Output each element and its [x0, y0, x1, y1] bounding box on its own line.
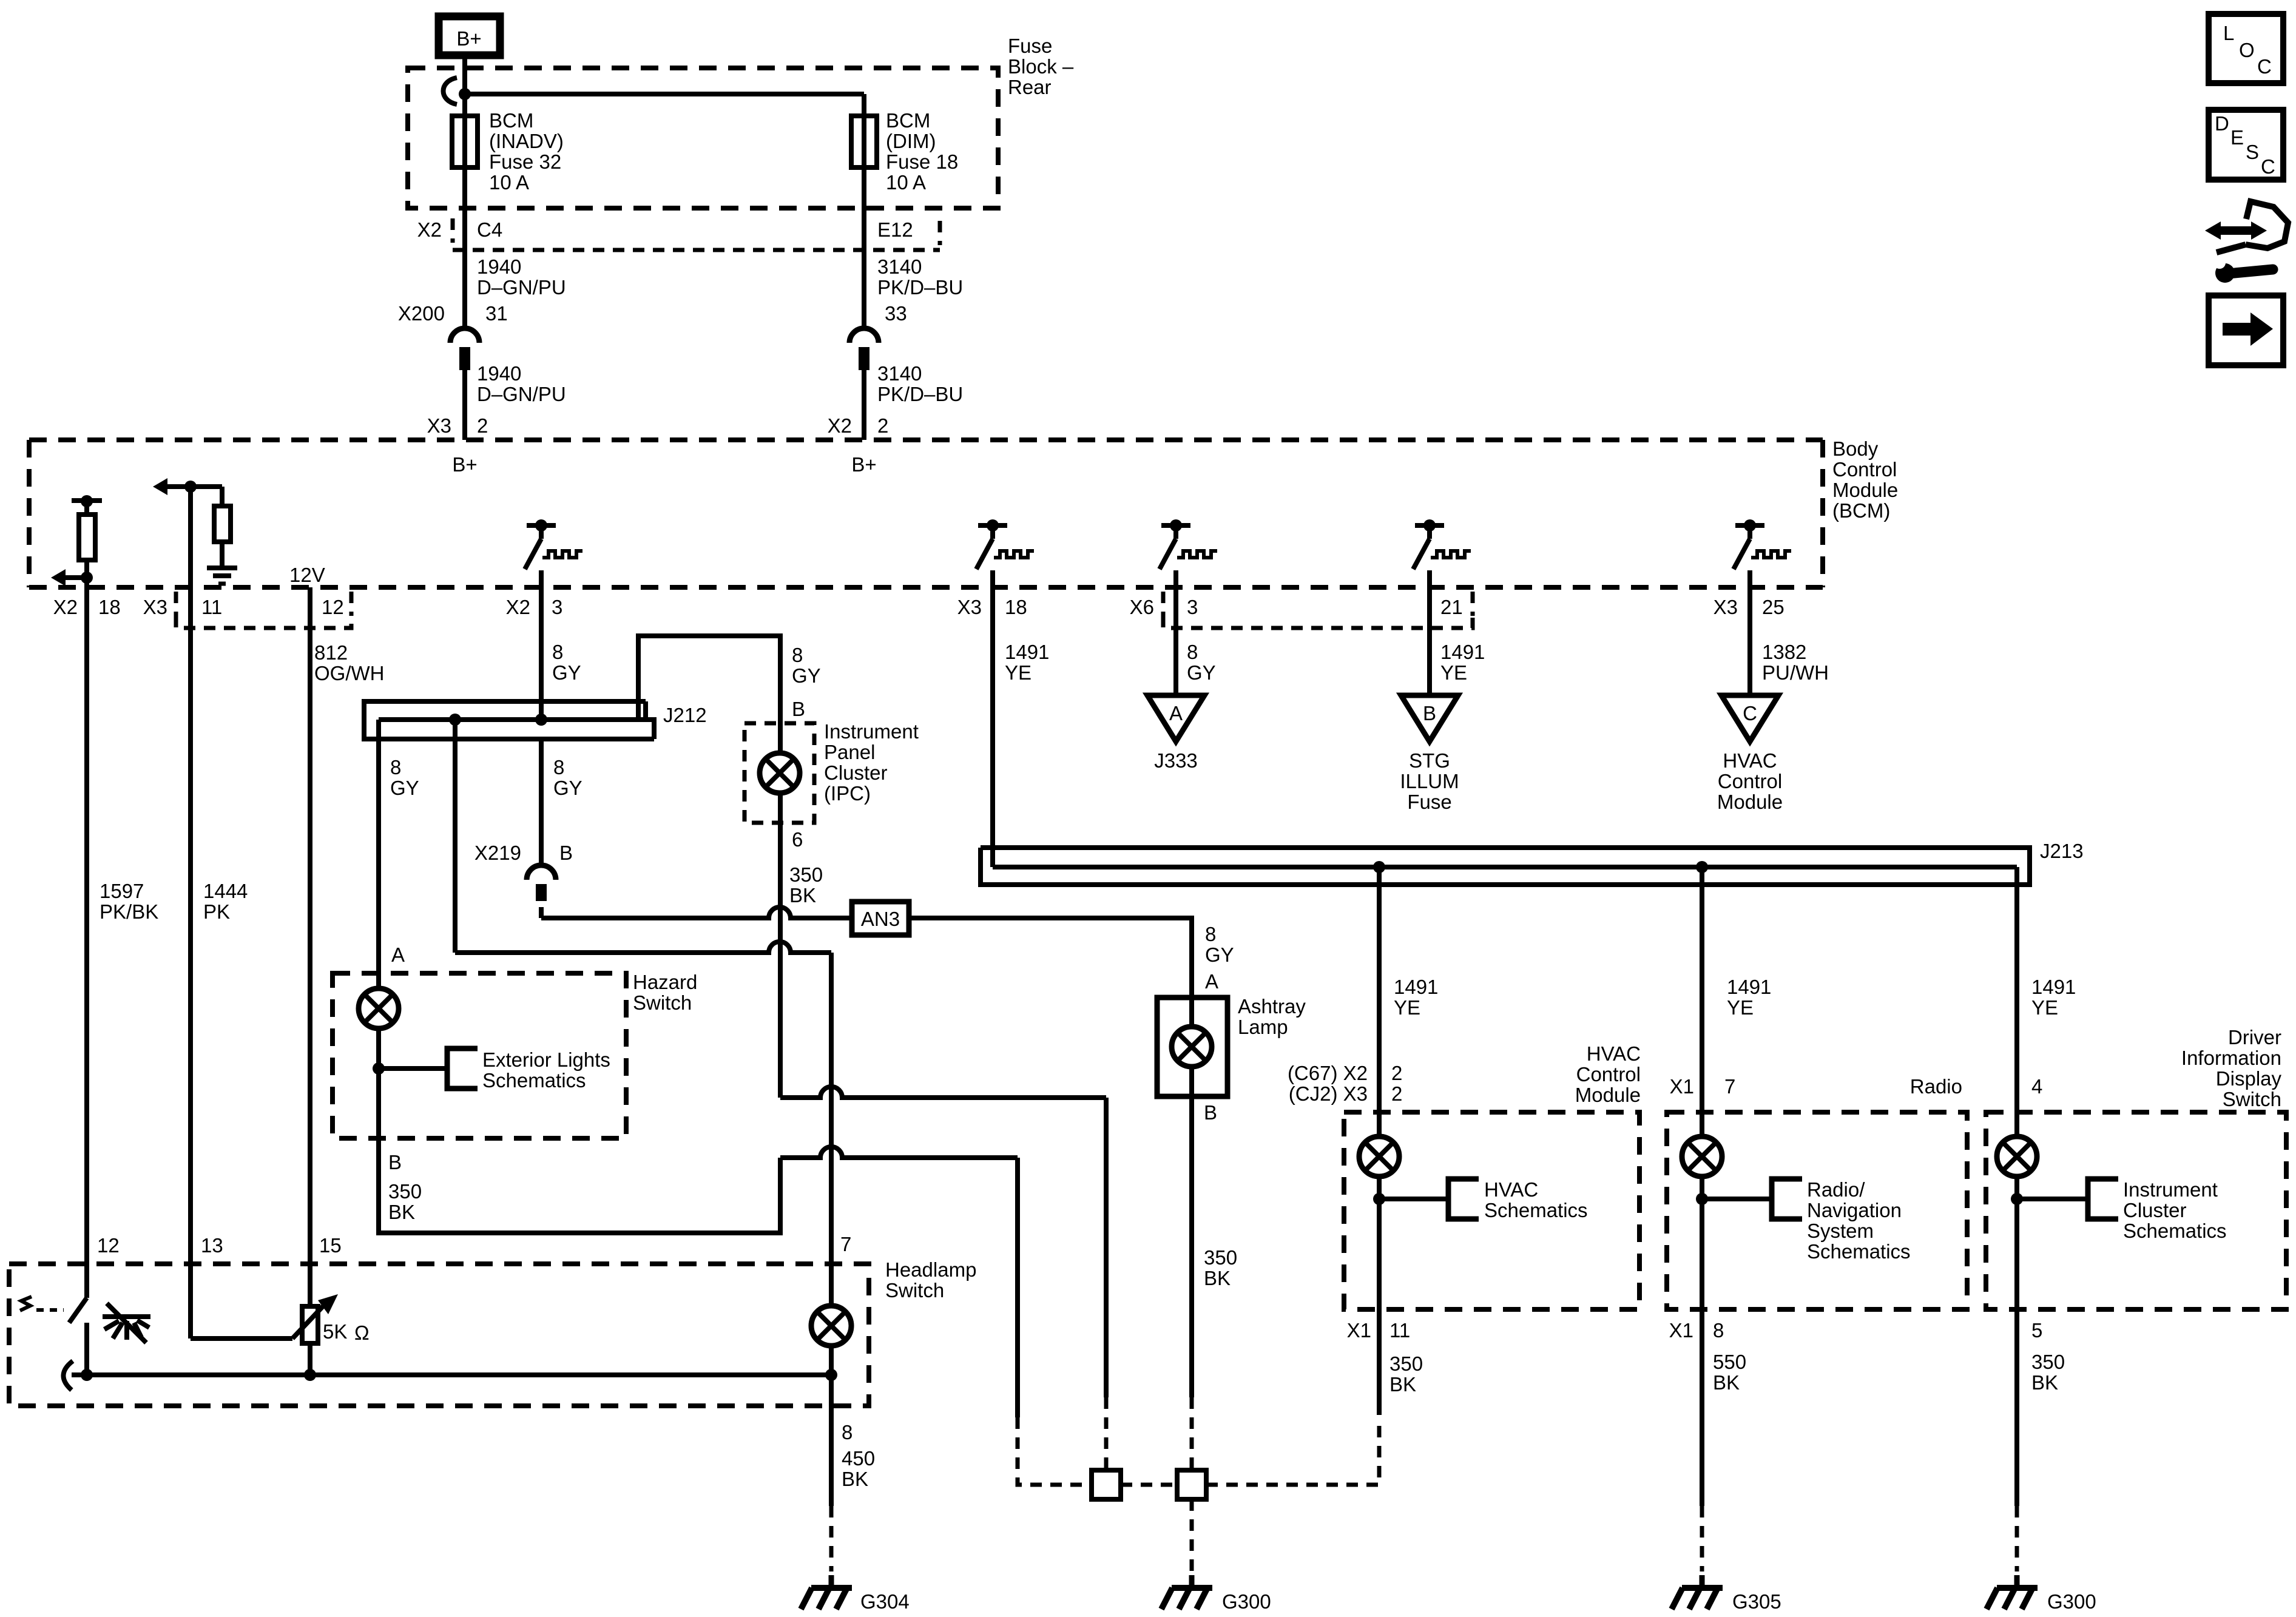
DID switch dashed box	[1986, 1112, 2286, 1309]
lamp DID switch illumination	[1997, 1136, 2037, 1176]
svg-text:Rear: Rear	[1008, 76, 1052, 98]
wire 1491 YE from X3-18	[990, 587, 995, 867]
wire 8 GY from X6-3	[1173, 587, 1178, 695]
svg-text:Instrument: Instrument	[2123, 1178, 2218, 1201]
fuse block dashed box	[408, 68, 998, 208]
svg-text:812: 812	[314, 641, 348, 664]
svg-text:Exterior Lights: Exterior Lights	[482, 1048, 610, 1071]
icon DESC	[2209, 110, 2283, 180]
svg-text:X3: X3	[957, 596, 982, 618]
fuse element curve	[444, 78, 458, 104]
svg-text:Ashtray: Ashtray	[1238, 995, 1306, 1018]
svg-text:YE: YE	[1440, 661, 1467, 684]
ground G300 right	[1987, 1575, 2038, 1609]
svg-text:BK: BK	[1713, 1371, 1740, 1394]
svg-text:Switch: Switch	[633, 991, 692, 1014]
svg-text:Fuse 18: Fuse 18	[886, 150, 958, 173]
Instrument Panel Cluster dashed box	[745, 723, 814, 823]
wire headlamp feed 8 GY	[453, 720, 458, 953]
fuse F32 BCM (INADV)	[452, 116, 478, 167]
svg-text:J213: J213	[2040, 840, 2084, 862]
svg-text:Schematics: Schematics	[482, 1069, 586, 1092]
svg-text:HVAC: HVAC	[1587, 1042, 1641, 1065]
svg-text:5K: 5K	[323, 1320, 347, 1343]
svg-text:Schematics: Schematics	[1484, 1199, 1588, 1221]
svg-text:Navigation: Navigation	[1807, 1199, 1902, 1221]
svg-text:8: 8	[1713, 1319, 1724, 1342]
wire headlamp feed right jog with hop	[455, 942, 831, 953]
svg-text:BK: BK	[842, 1468, 868, 1490]
svg-text:5: 5	[2031, 1319, 2042, 1342]
Headlamp Switch dashed box	[9, 1264, 869, 1406]
svg-text:B+: B+	[452, 453, 477, 476]
svg-text:J212: J212	[663, 704, 707, 726]
ground internal BCM	[207, 568, 237, 584]
lamp headlamp switch illumination	[811, 1306, 851, 1346]
svg-text:1940: 1940	[477, 255, 521, 278]
junction HVAC lamp out	[1373, 1193, 1385, 1205]
svg-text:Switch: Switch	[2223, 1088, 2281, 1110]
svg-text:Schematics: Schematics	[2123, 1220, 2227, 1242]
svg-text:18: 18	[98, 596, 121, 618]
svg-text:8: 8	[390, 756, 401, 778]
splice squares on existing harness	[1092, 1470, 1121, 1499]
svg-text:HVAC: HVAC	[1484, 1178, 1538, 1201]
svg-text:BCM: BCM	[489, 109, 533, 132]
svg-text:1491: 1491	[1727, 976, 1771, 998]
bracket to HVAC Schematics	[1448, 1179, 1479, 1219]
svg-text:Control: Control	[1832, 458, 1897, 481]
svg-text:8: 8	[842, 1421, 853, 1443]
svg-text:12: 12	[97, 1234, 120, 1257]
svg-text:O: O	[2239, 39, 2255, 61]
interior lamps off icon	[103, 1303, 150, 1343]
svg-text:D–GN/PU: D–GN/PU	[477, 383, 566, 405]
svg-text:A: A	[391, 944, 405, 966]
svg-text:GY: GY	[552, 661, 581, 684]
svg-text:10 A: 10 A	[886, 171, 926, 194]
switch BCM 21	[1413, 519, 1471, 589]
svg-text:1491: 1491	[1394, 976, 1438, 998]
svg-text:GY: GY	[792, 664, 821, 687]
switch BCM X2-3	[525, 519, 582, 589]
svg-text:1940: 1940	[477, 362, 521, 385]
svg-text:8: 8	[1205, 923, 1216, 945]
svg-text:GY: GY	[1205, 944, 1234, 966]
junction hazard lamp out	[373, 1062, 385, 1075]
svg-text:31: 31	[485, 302, 508, 325]
svg-text:2: 2	[877, 414, 888, 437]
ground G300	[1161, 1575, 1212, 1609]
svg-text:Schematics: Schematics	[1807, 1240, 1911, 1263]
svg-text:350: 350	[1389, 1352, 1423, 1375]
wire 450 BK	[829, 1375, 834, 1506]
svg-text:4: 4	[2031, 1075, 2042, 1098]
svg-text:X2: X2	[53, 596, 78, 618]
svg-text:AN3: AN3	[861, 908, 900, 930]
lamp ashtray	[1172, 1027, 1212, 1067]
junction J212 main	[535, 714, 547, 726]
svg-text:BK: BK	[2031, 1371, 2058, 1394]
connector X200 pin 31	[450, 328, 479, 370]
svg-text:Lamp: Lamp	[1238, 1016, 1288, 1038]
svg-text:BK: BK	[388, 1201, 415, 1223]
svg-text:B: B	[1204, 1101, 1217, 1124]
svg-text:X1: X1	[1347, 1319, 1371, 1342]
svg-text:Cluster: Cluster	[824, 761, 888, 784]
svg-text:Fuse: Fuse	[1407, 791, 1451, 813]
wire J212 to IPC jog	[638, 636, 780, 723]
svg-text:L: L	[2223, 22, 2234, 44]
wire 1491 YE from pin 21	[1427, 587, 1432, 695]
svg-text:1491: 1491	[1440, 641, 1485, 663]
Hazard Switch dashed box	[333, 973, 626, 1138]
svg-text:B+: B+	[456, 27, 481, 50]
wire 1491 YE to Radio	[1700, 867, 1704, 1112]
svg-text:G300: G300	[1222, 1590, 1271, 1613]
svg-text:1491: 1491	[2031, 976, 2076, 998]
svg-text:GY: GY	[1187, 661, 1216, 684]
svg-text:A: A	[1205, 970, 1218, 993]
svg-text:3140: 3140	[877, 255, 922, 278]
switch BCM X3-18	[976, 519, 1034, 589]
junction J212 headlamp feed	[449, 714, 461, 726]
svg-text:Information: Information	[2181, 1047, 2281, 1069]
svg-text:Radio/: Radio/	[1807, 1178, 1865, 1201]
svg-text:B: B	[559, 842, 573, 864]
svg-text:(IPC): (IPC)	[824, 782, 871, 805]
svg-text:11: 11	[201, 596, 222, 618]
svg-text:YE: YE	[1727, 996, 1754, 1019]
svg-text:E12: E12	[877, 218, 913, 241]
ground G305	[1672, 1575, 1723, 1609]
wire 1491 YE to DID switch	[2014, 867, 2019, 1112]
svg-text:B+: B+	[851, 453, 876, 476]
svg-text:18: 18	[1005, 596, 1027, 618]
bracket to Radio/Navigation System Schematics	[1772, 1179, 1802, 1219]
svg-text:BK: BK	[1389, 1373, 1416, 1396]
svg-text:(C67) X2: (C67) X2	[1288, 1062, 1368, 1084]
svg-text:YE: YE	[2031, 996, 2058, 1019]
svg-text:Control: Control	[1718, 770, 1782, 792]
wire 1382 PU/WH from X3-25	[1747, 587, 1752, 695]
detent symbol	[20, 1297, 32, 1311]
svg-text:ILLUM: ILLUM	[1400, 770, 1459, 792]
svg-text:Module: Module	[1717, 791, 1783, 813]
svg-text:2: 2	[1391, 1062, 1402, 1084]
svg-text:550: 550	[1713, 1351, 1746, 1373]
svg-text:(INADV): (INADV)	[489, 130, 564, 152]
junction J213 Radio	[1696, 861, 1708, 873]
svg-text:(DIM): (DIM)	[886, 130, 936, 152]
svg-text:Control: Control	[1576, 1063, 1641, 1085]
wire to fuse 18	[465, 92, 864, 96]
wire 1444 PK	[188, 587, 193, 1338]
svg-text:8: 8	[1187, 641, 1198, 663]
svg-text:(CJ2) X3: (CJ2) X3	[1289, 1082, 1368, 1105]
switch BCM X6-3	[1160, 519, 1217, 589]
lamp IPC illumination	[760, 753, 800, 793]
resistor in BCM output X2-18	[72, 495, 102, 587]
svg-text:BK: BK	[1204, 1267, 1231, 1289]
svg-text:X3: X3	[427, 414, 451, 437]
fuse F18 BCM (DIM)	[851, 116, 877, 167]
bracket to Exterior Lights Schematics	[447, 1048, 478, 1089]
svg-text:D: D	[2215, 112, 2229, 135]
Radio dashed box	[1667, 1112, 1967, 1309]
svg-text:C: C	[2261, 155, 2275, 178]
icon connector repair	[2205, 201, 2288, 283]
connector X200 pin 33	[849, 328, 879, 370]
wire below X200 right	[862, 370, 866, 440]
connector X3 dashed outline	[176, 616, 351, 628]
svg-text:X3: X3	[1714, 596, 1738, 618]
svg-text:Module: Module	[1575, 1084, 1641, 1106]
svg-text:Block –: Block –	[1008, 55, 1074, 78]
svg-text:3: 3	[552, 596, 562, 618]
svg-text:B: B	[1423, 702, 1436, 724]
svg-text:1444: 1444	[203, 880, 248, 902]
svg-text:33: 33	[885, 302, 907, 325]
headlamp switch common bus	[63, 1361, 73, 1390]
off-page connector B STG ILLUM Fuse	[1401, 695, 1458, 741]
svg-text:PK/BK: PK/BK	[100, 900, 158, 923]
junction J213 HVAC	[1373, 861, 1385, 873]
svg-text:Hazard: Hazard	[633, 971, 697, 993]
resistor to ground in BCM	[191, 484, 222, 489]
arrow out left X2-18	[81, 572, 93, 584]
junction radio lamp out	[1696, 1193, 1708, 1205]
svg-text:1491: 1491	[1005, 641, 1049, 663]
wire X219 B to headlamp switch	[539, 739, 544, 863]
svg-text:System: System	[1807, 1220, 1874, 1242]
svg-text:YE: YE	[1394, 996, 1420, 1019]
svg-text:J333: J333	[1154, 749, 1198, 772]
svg-text:1597: 1597	[100, 880, 144, 902]
connector X219 pin B	[527, 865, 556, 901]
wire 8 GY from X2-3	[539, 587, 544, 720]
splice pack J212	[364, 701, 654, 739]
svg-text:Switch: Switch	[885, 1279, 944, 1301]
svg-text:BK: BK	[789, 884, 816, 906]
svg-text:G304: G304	[860, 1590, 910, 1613]
wire 812 OG/WH	[308, 587, 312, 1306]
svg-text:B: B	[792, 698, 805, 720]
svg-text:GY: GY	[553, 777, 582, 799]
svg-text:Radio: Radio	[1910, 1075, 1962, 1098]
svg-text:12V: 12V	[289, 564, 325, 586]
svg-text:GY: GY	[390, 777, 419, 799]
svg-text:HVAC: HVAC	[1723, 749, 1777, 772]
svg-text:7: 7	[840, 1233, 851, 1255]
svg-text:X1: X1	[1669, 1319, 1693, 1342]
svg-text:15: 15	[319, 1234, 342, 1257]
junction DID lamp out	[2011, 1193, 2023, 1205]
wire 1597 PK/BK	[84, 587, 89, 1298]
wire X3-11 internal	[188, 487, 193, 587]
wire 1491 YE to HVAC	[1377, 867, 1382, 1112]
svg-text:D–GN/PU: D–GN/PU	[477, 276, 566, 299]
svg-text:X219: X219	[474, 842, 521, 864]
svg-text:C: C	[1743, 702, 1757, 724]
lamp radio illumination	[1682, 1136, 1722, 1176]
svg-text:C: C	[2257, 55, 2272, 78]
svg-text:8: 8	[553, 756, 564, 778]
junction fuse feed	[459, 88, 471, 100]
svg-text:X6: X6	[1130, 596, 1154, 618]
bracket to Instrument Cluster Schematics	[2088, 1179, 2118, 1219]
svg-text:450: 450	[842, 1447, 875, 1470]
svg-text:350: 350	[789, 863, 823, 886]
svg-text:Panel: Panel	[824, 741, 875, 763]
svg-text:21: 21	[1440, 596, 1463, 618]
headlamp switch contact	[69, 1298, 87, 1323]
svg-text:Module: Module	[1832, 479, 1898, 501]
node B+ supply box	[439, 16, 500, 55]
wire below X200 left	[462, 370, 467, 440]
svg-text:350: 350	[1204, 1246, 1237, 1269]
svg-text:3: 3	[1187, 596, 1198, 618]
svg-text:G305: G305	[1732, 1590, 1781, 1613]
svg-text:8: 8	[552, 641, 563, 663]
lamp hazard switch illumination	[359, 988, 399, 1028]
svg-text:Display: Display	[2216, 1067, 2282, 1090]
wire 350 BK ashtray	[1189, 1096, 1194, 1397]
svg-text:10 A: 10 A	[489, 171, 529, 194]
node AN3 box	[852, 902, 909, 935]
ground G304	[801, 1575, 852, 1609]
svg-text:1382: 1382	[1762, 641, 1806, 663]
svg-text:7: 7	[1724, 1075, 1735, 1098]
arrow out left X3-11	[184, 481, 197, 493]
potentiometer 5K	[191, 1336, 292, 1341]
svg-text:13: 13	[201, 1234, 223, 1257]
Ashtray Lamp box	[1157, 998, 1227, 1096]
svg-text:PU/WH: PU/WH	[1762, 661, 1829, 684]
svg-text:25: 25	[1762, 596, 1784, 618]
svg-text:X3: X3	[143, 596, 167, 618]
svg-text:(BCM): (BCM)	[1832, 499, 1890, 522]
svg-text:STG: STG	[1409, 749, 1450, 772]
icon next-page arrow	[2209, 295, 2283, 365]
svg-text:S: S	[2246, 141, 2259, 163]
switch BCM X3-25	[1734, 519, 1791, 589]
off-page connector C HVAC Control Module	[1721, 695, 1778, 741]
svg-text:Instrument: Instrument	[824, 720, 919, 743]
svg-text:A: A	[1169, 702, 1183, 724]
wire B+ to fuse block	[462, 55, 467, 327]
svg-text:X2: X2	[417, 218, 442, 241]
svg-text:Fuse 32: Fuse 32	[489, 150, 561, 173]
svg-text:Body: Body	[1832, 437, 1879, 460]
svg-text:350: 350	[388, 1180, 422, 1203]
svg-text:B: B	[388, 1151, 402, 1173]
svg-text:G300: G300	[2047, 1590, 2096, 1613]
icon LOC	[2209, 14, 2283, 83]
svg-text:350: 350	[2031, 1351, 2065, 1373]
svg-text:C4: C4	[477, 218, 502, 241]
wire AN3 to ashtray lamp	[909, 918, 1192, 998]
Body Control Module dashed box	[29, 437, 1823, 442]
off-page connector A J333	[1147, 695, 1204, 741]
svg-text:X1: X1	[1670, 1075, 1694, 1098]
svg-text:E: E	[2230, 126, 2244, 149]
svg-text:12: 12	[322, 596, 344, 618]
svg-text:YE: YE	[1005, 661, 1032, 684]
svg-text:6: 6	[792, 828, 803, 851]
wire hazard feed 8 GY	[376, 720, 381, 990]
svg-text:8: 8	[792, 644, 803, 666]
connector X6 dashed outline	[1163, 616, 1473, 628]
svg-text:OG/WH: OG/WH	[314, 662, 384, 684]
wire IPC BK to splice square with hop	[780, 1087, 1106, 1098]
svg-text:2: 2	[477, 414, 488, 437]
svg-text:Cluster: Cluster	[2123, 1199, 2187, 1221]
svg-text:PK/D–BU: PK/D–BU	[877, 383, 963, 405]
svg-text:Fuse: Fuse	[1008, 35, 1052, 57]
lamp HVAC illumination	[1359, 1136, 1399, 1176]
svg-text:X200: X200	[398, 302, 445, 325]
svg-text:PK: PK	[203, 900, 230, 923]
HVAC Control Module dashed box	[1344, 1112, 1639, 1309]
svg-text:X2: X2	[828, 414, 852, 437]
svg-text:11: 11	[1389, 1319, 1410, 1342]
svg-text:2: 2	[1391, 1082, 1402, 1105]
svg-text:PK/D–BU: PK/D–BU	[877, 276, 963, 299]
svg-text:X2: X2	[506, 596, 530, 618]
svg-text:3140: 3140	[877, 362, 922, 385]
splice pack J213	[981, 848, 2030, 885]
svg-text:Ω: Ω	[354, 1322, 370, 1344]
svg-text:Headlamp: Headlamp	[885, 1258, 976, 1281]
svg-text:Driver: Driver	[2228, 1026, 2281, 1048]
wire to AN3 with hop	[541, 907, 852, 918]
svg-text:BCM: BCM	[886, 109, 930, 132]
